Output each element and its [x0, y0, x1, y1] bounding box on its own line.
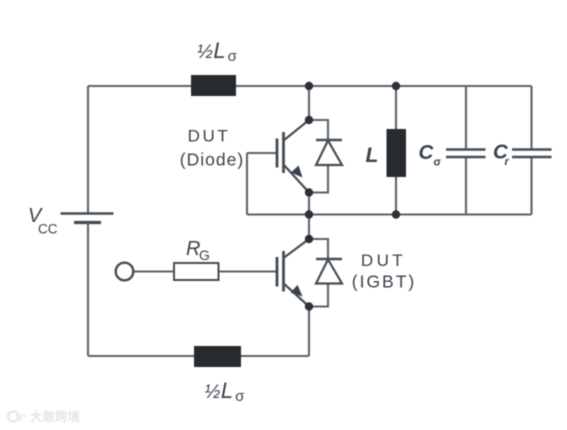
svg-text:½Lσ: ½Lσ: [197, 38, 238, 65]
svg-text:DUT: DUT: [361, 251, 406, 270]
svg-text:σ: σ: [434, 157, 442, 169]
svg-text:r: r: [505, 156, 510, 168]
svg-text:L: L: [366, 144, 379, 167]
svg-text:CC: CC: [38, 222, 58, 237]
svg-text:½Lσ: ½Lσ: [205, 378, 246, 405]
svg-text:DUT: DUT: [188, 127, 231, 146]
svg-text:G: G: [199, 247, 210, 263]
svg-text:(IGBT): (IGBT): [352, 272, 417, 292]
svg-text:(Diode): (Diode): [180, 150, 244, 170]
svg-text:C: C: [419, 141, 435, 164]
svg-text:5°: 5°: [17, 413, 27, 424]
svg-text:大敢跨境: 大敢跨境: [30, 409, 81, 424]
